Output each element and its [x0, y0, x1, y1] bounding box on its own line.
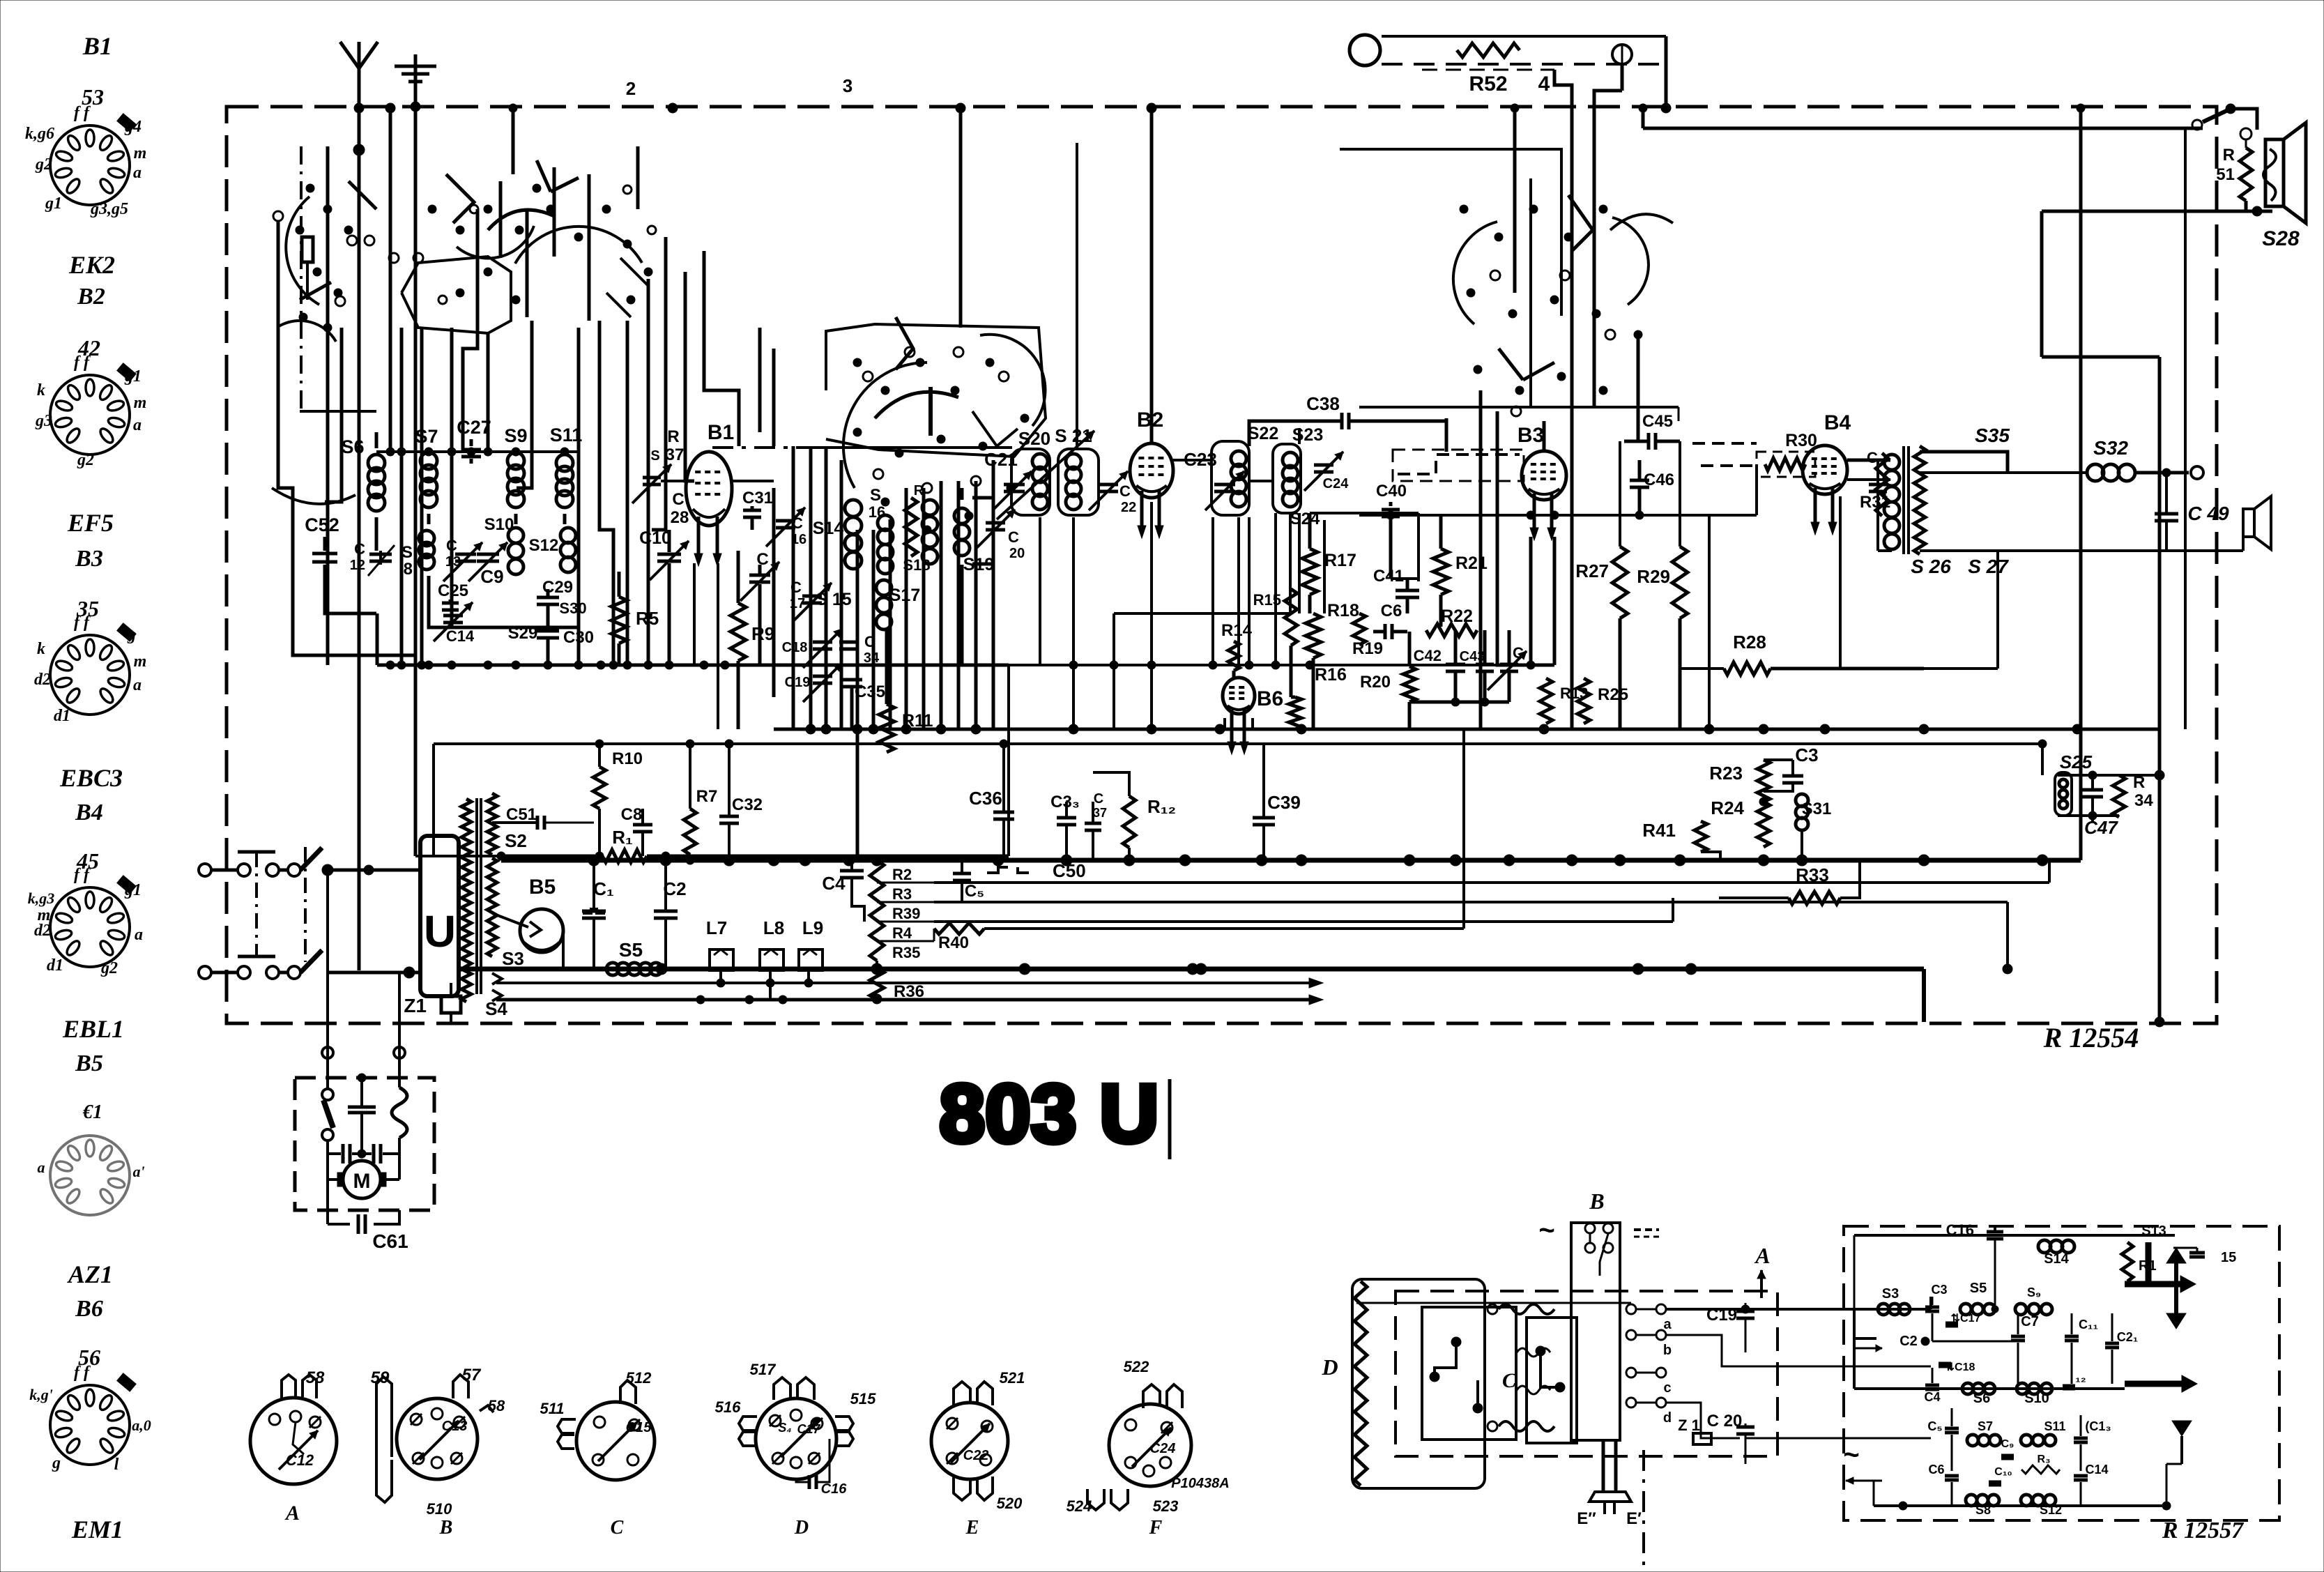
capacitor C22 trimmer: [1099, 483, 1118, 487]
svg-text:C₁₁: C₁₁: [2079, 1318, 2098, 1331]
wire stepped link 3: [400, 328, 404, 665]
resistor R52: [1457, 43, 1520, 57]
svg-text:a,0: a,0: [132, 1417, 151, 1434]
ballast lamp U: [420, 836, 459, 996]
wire heater line B: [496, 998, 1309, 1002]
svg-text:~: ~: [1843, 1440, 1859, 1470]
svg-text:R9: R9: [751, 623, 774, 644]
svg-text:34: 34: [864, 650, 880, 666]
wire long left verticals: [450, 452, 453, 627]
svg-text:k: k: [37, 640, 45, 658]
svg-text:d2: d2: [34, 671, 51, 689]
wire cluster extra 11: [512, 108, 515, 174]
wire stepped link 5: [599, 321, 613, 665]
svg-text:57: 57: [462, 1366, 482, 1384]
filter verticals: [1994, 1239, 1996, 1309]
svg-text:C27: C27: [457, 417, 491, 438]
svg-text:3: 3: [843, 75, 853, 96]
wire cluster extra 9: [325, 328, 342, 502]
adapter link plate 2: [1527, 1318, 1577, 1443]
wire cluster extra 4: [553, 167, 556, 257]
mains plug E: [1602, 1440, 1605, 1492]
svg-text:C42: C42: [1414, 647, 1442, 664]
svg-text:R: R: [914, 483, 924, 498]
svg-text:S11: S11: [550, 425, 583, 445]
svg-text:R5: R5: [636, 608, 659, 629]
wire heater line A: [496, 982, 1309, 984]
svg-text:R2: R2: [892, 866, 912, 883]
wire B3 cathode bottom: [1529, 537, 1533, 665]
coil unit A circle: [250, 1398, 337, 1484]
wire aerial socket lead: [306, 262, 309, 300]
svg-text:f f: f f: [74, 1364, 91, 1382]
svg-text:R40: R40: [938, 933, 969, 952]
svg-text:EK2: EK2: [68, 251, 115, 279]
svg-text:S22: S22: [1248, 424, 1278, 443]
wire cluster4 drop 1: [1445, 418, 1448, 452]
svg-text:16: 16: [869, 503, 885, 521]
tube socket diagram B6: [50, 1373, 136, 1465]
svg-text:EF5: EF5: [67, 509, 114, 537]
svg-text:R28: R28: [1733, 632, 1766, 653]
svg-text:C3: C3: [1795, 745, 1818, 765]
svg-text:g: g: [127, 626, 136, 644]
coil unit F winding 522: [1143, 1384, 1160, 1408]
svg-text:2: 2: [626, 78, 636, 99]
svg-text:R21: R21: [1455, 554, 1488, 573]
svg-text:a: a: [135, 926, 143, 944]
wire B1 plate row: [732, 480, 774, 482]
svg-text:L8: L8: [763, 917, 784, 938]
svg-text:EBC3: EBC3: [59, 764, 123, 792]
svg-text:f f: f f: [74, 866, 91, 884]
svg-text:28: 28: [671, 508, 689, 527]
svg-text:521: 521: [1000, 1369, 1025, 1387]
svg-text:C₁: C₁: [593, 878, 614, 899]
wire bus top-left 1: [389, 108, 392, 452]
svg-text:C2₁: C2₁: [2117, 1330, 2138, 1344]
motor capacitor: [348, 1106, 376, 1109]
wire right vertical drop S28: [2042, 356, 2159, 359]
mechanical link dash-dot: [255, 852, 258, 956]
wire switch drop f: [647, 279, 650, 665]
svg-text:C39: C39: [1267, 792, 1301, 813]
svg-text:R16: R16: [1315, 665, 1347, 685]
wave-band switch wafer 4: [1453, 222, 1497, 324]
wave-band switch wafer 2: [515, 227, 642, 264]
transformer core: [475, 798, 478, 994]
svg-text:S20: S20: [1018, 428, 1050, 449]
wire heater bus y1228: [501, 855, 594, 858]
aerial input socket rect: [302, 237, 313, 262]
wire right inner vertical: [2184, 128, 2187, 448]
coil unit F winding 524 523: [1087, 1489, 1104, 1510]
wire bus y1046: [774, 728, 2161, 731]
tube socket diagram B5: [50, 1136, 130, 1215]
wire cluster extra 5: [588, 174, 591, 321]
svg-text:d1: d1: [54, 707, 70, 725]
capacitor C61: [326, 1210, 329, 1224]
svg-text:d2: d2: [34, 922, 51, 940]
svg-text:C14: C14: [2085, 1463, 2108, 1476]
coil unit C winding 511: [558, 1419, 576, 1433]
svg-text:f f: f f: [74, 613, 91, 632]
wire switch3 drop r: [974, 481, 978, 729]
capacitor 15 filter: [2189, 1251, 2205, 1255]
mains terminals row 1: [199, 864, 211, 876]
switch wafer 4 contact circles: [1490, 270, 1500, 280]
wire switch drop c: [517, 321, 532, 488]
coil unit D circle: [756, 1398, 836, 1479]
svg-text:R23: R23: [1709, 763, 1743, 784]
svg-text:516: 516: [715, 1398, 741, 1416]
resistor R1 filter: [2122, 1242, 2133, 1281]
svg-text:R10: R10: [612, 749, 643, 768]
wire cluster extra 6: [636, 146, 640, 209]
wire S24 drop: [1323, 520, 1326, 613]
filter bottom rail: [1874, 1504, 2166, 1507]
mains switch blade 2: [300, 950, 322, 972]
wire B2 plate top feed: [1150, 108, 1154, 444]
wire cluster4 drop 2: [1479, 390, 1483, 729]
wire B2 plate row: [1173, 459, 1211, 461]
svg-text:C38: C38: [1306, 393, 1340, 414]
svg-text:₁₂: ₁₂: [2075, 1371, 2086, 1384]
resistor R17: [1302, 549, 1317, 595]
svg-text:511: 511: [540, 1400, 564, 1417]
wire vertical 1652: [1150, 502, 1153, 729]
tube socket diagram B1: [50, 114, 136, 205]
wire C38 link: [1249, 421, 1324, 446]
svg-text:C3: C3: [1931, 1283, 1947, 1297]
heater wiggle resistors: [1499, 1304, 1554, 1314]
wire ground lead down: [414, 150, 418, 856]
svg-text:515: 515: [850, 1390, 876, 1407]
svg-text:R11: R11: [902, 711, 933, 731]
wire S27 to S32: [1920, 452, 2008, 473]
svg-text:a: a: [1663, 1317, 1672, 1332]
wire y760 horizontal right: [1847, 478, 1890, 481]
svg-text:F: F: [1149, 1517, 1163, 1539]
svg-text:~: ~: [1538, 1215, 1554, 1246]
wire switch drop g: [959, 108, 963, 328]
wire right mid verticals: [1708, 515, 1711, 729]
svg-text:R7: R7: [696, 787, 718, 806]
svg-text:37: 37: [666, 445, 685, 464]
wire long right vertical: [2158, 357, 2162, 1022]
svg-text:EBL1: EBL1: [62, 1015, 124, 1043]
motor coil: [392, 1088, 407, 1138]
wire dial lamp to frame: [1554, 70, 1572, 108]
svg-text:B6: B6: [75, 1296, 103, 1322]
wire switch3 drop p: [940, 481, 943, 729]
wire vertical 1777: [1237, 517, 1240, 665]
svg-text:k: k: [37, 381, 45, 399]
svg-text:R4: R4: [892, 924, 912, 942]
capacitor C16 unit D: [808, 1475, 811, 1489]
svg-text:C21: C21: [984, 449, 1018, 470]
svg-text:R30: R30: [1785, 431, 1817, 450]
svg-text:D: D: [794, 1517, 809, 1539]
resistor R5: [611, 597, 627, 643]
wire R20 C42 bottom tie: [1409, 701, 1509, 704]
svg-text:S32: S32: [2093, 437, 2128, 459]
svg-text:B5: B5: [75, 1051, 103, 1076]
svg-text:C7: C7: [2021, 1314, 2039, 1329]
wire rows from resistor stack: [934, 881, 2049, 884]
svg-text:a': a': [132, 1163, 144, 1180]
resistor R18: [1306, 613, 1321, 658]
wire cluster4 box outline: [1340, 149, 1561, 316]
svg-text:S: S: [870, 486, 881, 505]
switch wafer 3 plate: [826, 324, 1046, 457]
wire bus top-left 2: [326, 146, 330, 665]
motor M: [343, 1161, 381, 1198]
title separator bar: [1168, 1079, 1172, 1159]
wire S23 top link: [1298, 428, 1301, 444]
svg-text:22: 22: [1121, 500, 1136, 515]
svg-text:C45: C45: [1642, 412, 1673, 431]
wire top lines above bus: [434, 742, 1264, 745]
resistor stack R2 R3 R39 R4 R35: [870, 860, 884, 961]
svg-text:C30: C30: [563, 628, 594, 647]
resistor R27: [1612, 547, 1628, 618]
svg-text:58: 58: [488, 1397, 505, 1414]
svg-text:803 U: 803 U: [940, 1068, 1159, 1160]
svg-text:E″: E″: [1577, 1509, 1596, 1528]
svg-text:B: B: [1589, 1189, 1604, 1214]
wire switch3 drop h: [809, 446, 813, 729]
wire row connectors right: [2048, 860, 2051, 883]
resistor R11: [879, 704, 894, 752]
svg-text:15: 15: [2221, 1250, 2236, 1265]
resistor R9: [731, 603, 746, 661]
chassis frame dashed border: [227, 107, 2217, 1023]
capacitor C20 trimmer: [972, 498, 993, 564]
svg-text:L9: L9: [802, 917, 823, 938]
wire grid bus y954: [377, 664, 1009, 667]
svg-text:a: a: [133, 676, 142, 694]
wire lamp drop: [1665, 36, 1668, 108]
wire vertical 1492: [1039, 517, 1041, 665]
wire y1067 long: [1264, 742, 2042, 745]
wave-band switch wafer 1: [286, 197, 319, 305]
svg-text:Z 1: Z 1: [1678, 1417, 1700, 1434]
antenna: [340, 42, 378, 68]
svg-text:520: 520: [997, 1495, 1023, 1512]
svg-text:59: 59: [371, 1368, 390, 1387]
mains switch blade 1: [300, 848, 322, 870]
svg-text:523: 523: [1153, 1497, 1179, 1515]
wire adapter to filter: [1929, 1297, 1932, 1309]
wire cluster extra 2: [499, 181, 503, 258]
svg-text:C: C: [1094, 791, 1103, 807]
wire long horizontal y584: [1359, 406, 1679, 409]
dial cord dashed band: [1382, 35, 1666, 38]
svg-text:S5: S5: [619, 939, 643, 961]
junction dots top frame: [668, 103, 678, 113]
svg-text:R22: R22: [1441, 606, 1473, 626]
wire choke drops: [719, 970, 722, 983]
svg-text:k,g': k,g': [29, 1386, 53, 1403]
wire vertical 1792b: [1248, 517, 1251, 665]
wire motor feeds: [326, 870, 329, 1078]
coil unit E circle: [931, 1403, 1008, 1479]
svg-text:C40: C40: [1376, 482, 1407, 501]
svg-text:C43: C43: [1460, 649, 1485, 664]
coil S9 filter: [2015, 1304, 2026, 1315]
svg-text:b: b: [1663, 1343, 1672, 1358]
svg-text:S13: S13: [2141, 1223, 2166, 1239]
svg-text:R17: R17: [1324, 551, 1356, 570]
grid dashed lead B4: [1692, 442, 1757, 445]
switch wafer 3 wiper arms: [896, 317, 913, 369]
coil unit B winding 59: [376, 1377, 392, 1458]
svg-text:C16: C16: [1946, 1221, 1974, 1239]
svg-text:C52: C52: [305, 514, 339, 535]
dash-dot mechanical link left: [300, 146, 303, 411]
svg-text:g3,g5: g3,g5: [90, 200, 128, 218]
svg-text:B1: B1: [708, 421, 734, 444]
wire switch3 drop k: [856, 530, 859, 860]
svg-text:S7: S7: [415, 426, 438, 447]
wire output bottom: [1920, 549, 2166, 552]
wire mid horizontal y954 right: [1531, 664, 1554, 667]
svg-text:S: S: [402, 543, 413, 562]
svg-text:g: g: [52, 1454, 61, 1472]
mains transformer primary winding: [461, 799, 471, 1002]
svg-text:(C1₃: (C1₃: [2085, 1419, 2111, 1433]
wire cluster extra 13: [772, 349, 776, 446]
wire cluster extra 1: [463, 209, 477, 452]
svg-text:d: d: [1663, 1410, 1672, 1426]
svg-text:51: 51: [2216, 165, 2235, 184]
wave-band switch wafer 3: [843, 363, 927, 488]
wire y512 horizontal: [2042, 356, 2159, 358]
svg-text:g2: g2: [100, 959, 118, 977]
mains terminals row 2: [199, 966, 211, 979]
resistor R16: [1289, 697, 1301, 729]
svg-text:58: 58: [306, 1368, 325, 1387]
svg-text:S4: S4: [485, 998, 507, 1019]
svg-text:S9: S9: [504, 425, 527, 446]
svg-text:A: A: [1754, 1243, 1770, 1268]
coil S19: [954, 508, 970, 524]
svg-text:S₉: S₉: [2027, 1285, 2041, 1299]
svg-text:R24: R24: [1711, 798, 1744, 818]
svg-text:S29: S29: [508, 624, 538, 643]
svg-text:R: R: [667, 427, 679, 446]
coil unit B winding 57: [453, 1375, 468, 1398]
coil unit A winding 58: [282, 1375, 296, 1398]
svg-text:C31: C31: [742, 489, 773, 508]
svg-text:R₁: R₁: [612, 827, 633, 848]
svg-text:m: m: [134, 653, 147, 671]
svg-text:R27: R27: [1575, 560, 1609, 581]
svg-text:S28: S28: [2262, 227, 2300, 250]
svg-text:l: l: [114, 1456, 119, 1474]
svg-text:a: a: [38, 1159, 45, 1176]
svg-text:C2: C2: [1899, 1334, 1918, 1349]
svg-text:C: C: [1008, 528, 1019, 546]
wire stepped link 1: [278, 221, 415, 655]
svg-text:C6: C6: [1381, 602, 1402, 620]
svg-text:R41: R41: [1642, 820, 1676, 841]
coil unit C circle: [576, 1402, 655, 1480]
svg-text:C9: C9: [480, 566, 503, 587]
svg-text:C: C: [1119, 482, 1131, 500]
svg-text:R29: R29: [1637, 566, 1670, 587]
svg-text:C32: C32: [732, 795, 763, 814]
wire bus thick y1234: [501, 858, 2081, 863]
wire coil tops bus y648: [376, 450, 579, 453]
pilot lamp: [1612, 45, 1632, 64]
wire y739 long horizontal: [1359, 514, 1757, 517]
wire switch drop d: [577, 328, 581, 665]
capacitor C9 trimmer: [477, 553, 499, 556]
svg-text:c: c: [1663, 1380, 1671, 1396]
dashed mark: [1634, 1228, 1659, 1231]
switch wafer 1 extra arc: [272, 488, 356, 504]
wire lamp drop 2: [1621, 64, 1624, 91]
wire switch drop b: [487, 333, 490, 452]
variable coupling arrow S20-S21: [997, 431, 1094, 519]
wire vertical 1540: [1072, 517, 1075, 729]
resistor R34: [2113, 775, 2125, 817]
switch wafer 2 plate: [402, 257, 511, 333]
svg-text:S₄: S₄: [778, 1421, 791, 1435]
svg-text:m: m: [134, 144, 147, 162]
wire vertical 1851: [1289, 514, 1292, 613]
svg-text:a: a: [133, 164, 142, 182]
coil unit B lug 58: [480, 1405, 494, 1412]
svg-text:M: M: [353, 1170, 371, 1193]
filter bold arrows: [2125, 1281, 2189, 1288]
resistor R25: [1577, 678, 1590, 724]
speaker S28: [2265, 139, 2284, 206]
svg-text:R₃: R₃: [2038, 1453, 2051, 1465]
ground symbol: [414, 54, 418, 84]
switch wafer 1 wiper: [349, 181, 376, 209]
svg-text:S6: S6: [341, 436, 364, 457]
svg-text:C15: C15: [626, 1420, 652, 1435]
switch wafer 3 contact circles: [863, 372, 873, 381]
gramophone motor dashed box: [295, 1078, 434, 1210]
svg-text:f f: f f: [74, 353, 91, 372]
tube socket diagram B4: [50, 876, 136, 967]
svg-text:g1: g1: [124, 367, 142, 386]
svg-text:g2: g2: [35, 155, 52, 174]
switch wafer 2 wiper arms: [446, 174, 474, 223]
svg-text:g3: g3: [35, 412, 52, 430]
coil S14 filter: [2038, 1240, 2051, 1253]
wire switch3 drop n: [905, 488, 908, 729]
svg-text:S3: S3: [502, 948, 524, 969]
svg-text:B4: B4: [1824, 411, 1851, 434]
wire stepped link 2: [452, 452, 579, 627]
svg-text:S5: S5: [1970, 1281, 1987, 1296]
secondary winding S3: [487, 858, 497, 956]
tube socket diagram B2: [50, 363, 136, 455]
svg-text:C₁₀: C₁₀: [1994, 1466, 2012, 1478]
wire switch drop e: [626, 321, 629, 665]
wire speaker leads: [2256, 206, 2259, 211]
svg-text:S11: S11: [2044, 1419, 2065, 1433]
wire S25 block ties: [2058, 774, 2119, 777]
wire cluster4 drop 4: [1513, 108, 1517, 293]
coil unit B circle: [397, 1398, 477, 1479]
wire horizontals mid right: [1114, 612, 1290, 615]
